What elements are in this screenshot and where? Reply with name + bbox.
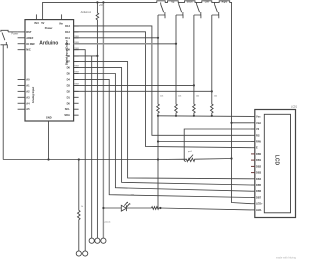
svg-text:DB5: DB5 — [256, 183, 262, 187]
svg-text:Arduino1: Arduino1 — [81, 10, 92, 14]
arduino left pin stubs RST AREF IOREF NC — [18, 32, 25, 50]
arduino PWM markers — [74, 36, 79, 86]
svg-text:A2: A2 — [26, 89, 30, 93]
svg-text:10k: 10k — [178, 96, 181, 98]
wire gnd vertical right — [157, 116, 159, 208]
resistor R8 piezo — [78, 160, 81, 251]
wire button col3 with resistor R5 — [193, 15, 196, 116]
wire to LED anode — [103, 207, 121, 209]
node LED- junction — [159, 207, 161, 209]
pushbutton S2 Up — [158, 2, 175, 19]
wire D3 to button col3 — [74, 84, 194, 86]
potentiometer RV1 wiper arrow — [189, 155, 194, 160]
svg-text:10k: 10k — [214, 96, 217, 98]
node D8 pullup junction — [96, 55, 98, 57]
svg-text:Arduino: Arduino — [39, 41, 58, 47]
svg-text:5V: 5V — [41, 21, 44, 25]
svg-text:Digital Input/Output: Digital Input/Output — [64, 40, 68, 65]
wire LCD Vdd — [232, 122, 252, 124]
svg-text:A5: A5 — [26, 107, 30, 111]
wire +5V feed gray vertical — [102, 2, 104, 238]
wire D6 to LCD DB5 — [74, 68, 251, 185]
arduino analog pin labels — [26, 77, 30, 111]
reset switch S1 bar — [1, 45, 8, 48]
wire reset to gnd bus — [2, 45, 4, 160]
wire D11 to button col1 — [74, 37, 158, 39]
svg-text:DB2: DB2 — [256, 164, 262, 168]
LCD pin stubs connected — [251, 117, 255, 210]
LED LED1 — [121, 202, 129, 211]
svg-text:Vss: Vss — [256, 115, 261, 119]
svg-text:piezo1: piezo1 — [105, 222, 112, 224]
node R4 bottom junction — [175, 115, 177, 117]
svg-text:Analog Input: Analog Input — [31, 87, 35, 104]
wire pullup continues to header — [96, 56, 98, 238]
potentiometer RV1 track — [158, 158, 232, 161]
wire D13 to LCD RS — [74, 26, 251, 135]
svg-text:D12: D12 — [65, 30, 70, 34]
svg-text:R/W: R/W — [256, 140, 262, 144]
wire LED- to LCD — [160, 208, 251, 210]
piezo terminal circle 2 — [83, 251, 88, 256]
arduino top pin 3V3 stub — [35, 14, 37, 19]
arduino analog pin stubs A0-A5 — [18, 79, 25, 109]
wire D5 to LCD DB6 — [74, 74, 251, 192]
arduino top pin labels — [34, 21, 63, 30]
wire D12 to LCD E — [74, 32, 251, 148]
svg-text:DB4: DB4 — [256, 177, 262, 181]
wire RW to LCD — [158, 141, 251, 143]
wire D2 to button col4 — [74, 90, 212, 92]
node R3 bottom junction — [157, 115, 159, 117]
node rail junction 1 — [96, 1, 98, 3]
svg-text:E: E — [256, 146, 258, 150]
arduino right pin stubs D13..SDA — [74, 26, 79, 115]
svg-text:GND: GND — [46, 116, 52, 120]
node arduino gnd junction — [47, 158, 49, 160]
svg-text:A1: A1 — [26, 83, 30, 87]
svg-text:D4: D4 — [67, 77, 71, 81]
svg-text:D3: D3 — [67, 83, 71, 87]
wire +5V rail from 5V pin with button bumps — [43, 1, 251, 204]
wire D4 to LCD DB7 — [74, 79, 251, 197]
node D3 junction — [193, 84, 195, 86]
wire arduino GND pin to bus — [48, 121, 50, 160]
svg-text:DB1: DB1 — [256, 158, 262, 162]
wire LED cathode to resistor — [126, 207, 151, 209]
node R6 bottom junction — [211, 115, 213, 117]
reset switch S1 wire from RST — [8, 31, 18, 33]
resistor R7 LED 220 — [152, 207, 159, 210]
wire gnd bus — [3, 159, 158, 161]
svg-text:DB0: DB0 — [256, 152, 262, 156]
svg-text:Left: Left — [205, 1, 209, 4]
svg-text:D13: D13 — [65, 24, 70, 28]
reset switch S1 contact — [5, 42, 7, 45]
node RW junction — [157, 140, 159, 142]
svg-text:LCD: LCD — [273, 155, 279, 166]
node D10 junction — [175, 43, 177, 45]
svg-text:RS: RS — [256, 133, 260, 137]
svg-text:D0: D0 — [67, 101, 71, 105]
svg-text:LED+: LED+ — [256, 202, 263, 206]
node pot to +5V junction — [230, 157, 232, 159]
svg-text:Power: Power — [11, 32, 18, 35]
node rail junction 2 — [102, 1, 104, 3]
svg-text:SDA: SDA — [64, 113, 70, 117]
wire gnd rail to LCD Vss — [158, 115, 251, 118]
svg-text:D11: D11 — [65, 36, 70, 40]
node LED feed junction — [102, 207, 104, 209]
svg-text:LCD1: LCD1 — [291, 105, 298, 108]
LCD pin stubs DB0-DB3 unconnected — [251, 154, 255, 173]
svg-text:1k: 1k — [81, 206, 83, 208]
svg-text:Vin: Vin — [59, 21, 63, 25]
svg-text:A3: A3 — [26, 95, 30, 99]
svg-text:Down: Down — [187, 2, 194, 4]
arduino left pin labels — [26, 30, 35, 52]
wire button col2 with resistor R4 — [175, 15, 178, 116]
svg-text:D6: D6 — [67, 66, 71, 70]
pushbutton S5 Right — [212, 1, 228, 19]
arduino U1 box — [25, 20, 74, 121]
wire D8 to pullup node — [74, 55, 98, 57]
svg-text:N/C: N/C — [26, 48, 31, 52]
node R5 bottom junction — [193, 115, 195, 117]
svg-text:IO REF: IO REF — [26, 42, 35, 46]
LCD pin labels — [256, 115, 263, 212]
svg-text:LED-: LED- — [256, 208, 262, 212]
wire D10 to button col2 gray — [74, 43, 176, 45]
svg-text:10k: 10k — [160, 96, 163, 98]
LCD U2 box — [255, 110, 296, 218]
svg-text:D2: D2 — [67, 89, 71, 93]
arduino top pin Vin stub — [61, 14, 63, 19]
reset switch S1 bump — [1, 30, 8, 32]
svg-text:made with fritzing: made with fritzing — [276, 256, 297, 260]
svg-text:DB6: DB6 — [256, 189, 262, 193]
LCD screen inner box — [264, 114, 290, 213]
wire button col1 with resistor R3 — [157, 15, 160, 116]
svg-text:Right: Right — [222, 1, 228, 4]
svg-text:AREF: AREF — [26, 36, 33, 40]
header terminal circle 2 — [95, 238, 100, 243]
svg-text:D1: D1 — [67, 95, 71, 99]
reset switch S1 lever — [2, 33, 5, 41]
svg-text:DB3: DB3 — [256, 171, 262, 175]
wire LCD V0 to pot wiper — [184, 129, 251, 162]
svg-text:3V3: 3V3 — [34, 21, 39, 25]
svg-text:10k: 10k — [196, 96, 199, 98]
resistor R1 pullup — [96, 2, 99, 56]
svg-text:D5: D5 — [67, 72, 71, 76]
wire D9 to piezo — [74, 50, 86, 251]
svg-text:DB7: DB7 — [256, 196, 262, 200]
svg-text:Vdd: Vdd — [256, 121, 261, 125]
header terminal circle 3 — [101, 238, 106, 243]
arduino right pin labels — [64, 24, 70, 117]
svg-text:A4: A4 — [26, 101, 30, 105]
node D11 junction — [157, 37, 159, 39]
wire button col4 with resistor R6 — [211, 15, 214, 116]
svg-text:SCL: SCL — [65, 107, 71, 111]
node +5V to LCD Vdd junction — [230, 122, 232, 124]
header terminal circle 1 — [89, 238, 94, 243]
wire resistor to LED- node — [159, 207, 161, 209]
pushbutton S4 Left — [194, 1, 209, 19]
wire D7 to LCD DB4 — [74, 62, 251, 179]
pushbutton S3 Down — [176, 2, 193, 19]
svg-text:A0: A0 — [26, 77, 30, 81]
node gnd bus end — [157, 158, 159, 160]
svg-text:RST: RST — [26, 30, 32, 34]
node piezo resistor junction — [78, 158, 80, 160]
piezo terminal circle 1 — [76, 251, 81, 256]
wire header pin1 drop — [91, 56, 93, 238]
svg-text:Power: Power — [45, 26, 53, 30]
node D2 junction — [211, 90, 213, 92]
